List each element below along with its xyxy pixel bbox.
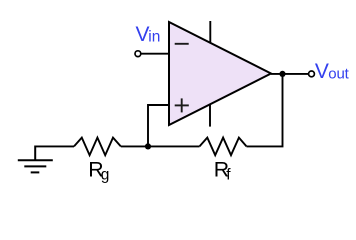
- ground: [18, 146, 53, 173]
- label Rf: [214, 157, 231, 183]
- op-amp U1 (triangle body): [169, 22, 271, 125]
- wire Vin terminal to inverting input: [141, 53, 169, 55]
- op-amp negative supply pin: [209, 104, 211, 127]
- node B (output junction dot): [279, 71, 285, 77]
- label Rg: [88, 157, 109, 183]
- output terminal Vout (open circle): [309, 71, 315, 77]
- input terminal Vin (open circle): [135, 51, 141, 57]
- resistor Rf: [200, 138, 247, 156]
- wire node A to Rf: [148, 145, 200, 147]
- label Vin: [136, 23, 161, 46]
- wire non-inverting input to node A: [148, 105, 169, 146]
- op-amp non-inverting input marker (plus): [175, 98, 189, 112]
- svg-text:out: out: [328, 66, 349, 83]
- svg-text:f: f: [226, 166, 231, 183]
- wire ground to Rg: [35, 145, 74, 147]
- node A (junction dot): [145, 143, 151, 149]
- svg-text:g: g: [101, 166, 110, 183]
- wire Rg to node A: [121, 145, 148, 147]
- svg-text:in: in: [148, 28, 160, 45]
- op-amp inverting input marker (minus): [175, 43, 189, 45]
- resistor Rg: [74, 138, 121, 156]
- wire Rf to output node (feedback): [247, 74, 283, 146]
- svg-text:V: V: [315, 60, 329, 83]
- op-amp positive supply pin: [209, 21, 211, 44]
- wire op-amp output: [271, 73, 309, 75]
- label Vout: [315, 60, 350, 83]
